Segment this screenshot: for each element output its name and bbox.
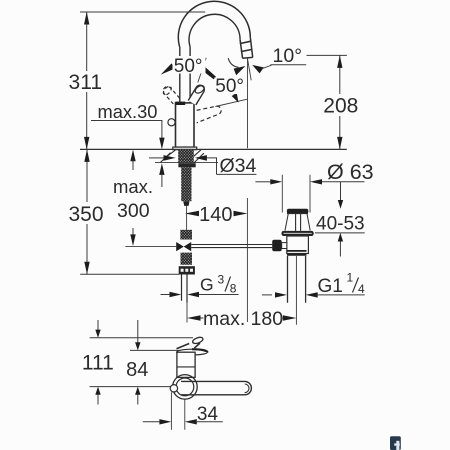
- temp knob circle on body: [168, 119, 175, 126]
- spout end section: [240, 37, 253, 58]
- dim G3/8: [161, 273, 239, 298]
- G3/8 tail pipe: [182, 275, 188, 303]
- threaded rod 1: [181, 167, 191, 201]
- faucet body front: [176, 103, 195, 147]
- plug stem: [287, 214, 308, 231]
- 10deg annotation: [228, 45, 306, 148]
- dim max.180: [187, 308, 296, 330]
- svg-text:4: 4: [358, 282, 365, 296]
- svg-text:300: 300: [117, 200, 150, 222]
- solid lever: [188, 84, 205, 105]
- drain body: [287, 236, 309, 254]
- svg-text:50°: 50°: [174, 56, 203, 77]
- svg-text:G1: G1: [318, 276, 343, 297]
- bowtie junction: [176, 242, 191, 251]
- svg-text:50°: 50°: [215, 76, 244, 97]
- svg-text:max.: max.: [113, 176, 153, 197]
- svg-text:350: 350: [68, 203, 103, 226]
- dim max.300: [113, 150, 153, 246]
- svg-text:140: 140: [199, 204, 232, 226]
- deck hatch right: [194, 150, 204, 163]
- svg-text:84: 84: [126, 359, 148, 381]
- rod tip: [183, 201, 189, 206]
- drain axis line: [295, 256, 297, 325]
- 50deg no.2: [214, 76, 247, 103]
- dim 350: [68, 149, 103, 274]
- svg-text:40-53: 40-53: [316, 214, 365, 235]
- svg-text:1: 1: [347, 271, 354, 285]
- svg-text:34: 34: [197, 404, 219, 425]
- svg-text:311: 311: [69, 71, 102, 94]
- dashed lever axis extension: [215, 99, 247, 106]
- dim 111: [82, 320, 114, 405]
- hose end line (max300 ref): [125, 245, 176, 247]
- dim 84: [126, 320, 148, 405]
- svg-text:max.30: max.30: [98, 101, 158, 122]
- dim Ø63: [255, 160, 373, 212]
- deck hatch left: [161, 150, 176, 162]
- shank collar: [178, 163, 195, 167]
- svg-text:max.: max.: [203, 308, 245, 330]
- spout arc inner: [189, 14, 240, 46]
- svg-text:111: 111: [82, 351, 114, 374]
- dim Ø34: [149, 155, 257, 177]
- dim 140: [185, 198, 247, 322]
- deck line: [80, 148, 347, 150]
- plug skirt lines: [285, 214, 310, 231]
- facebook logo fragment: [390, 436, 401, 450]
- dashed lever down-right: [197, 106, 222, 123]
- side view lever bar: [181, 381, 251, 394]
- side view cartridge circles: [173, 375, 198, 400]
- axis line below rod: [186, 206, 188, 230]
- pop-up rod: [191, 245, 272, 248]
- spout arc outer: [178, 1, 250, 46]
- 50deg no.1: [161, 56, 216, 83]
- ext line lever axis: [90, 386, 172, 388]
- threaded rod 3: [181, 253, 193, 265]
- side view faucet: dashed raised lever: [177, 336, 204, 349]
- dim 208: [307, 55, 359, 149]
- top ref line: [80, 11, 205, 13]
- threaded rod 2: [180, 230, 192, 240]
- side view top disc: [177, 349, 208, 355]
- mounting nut: [179, 266, 195, 274]
- svg-text:Ø34: Ø34: [220, 155, 257, 177]
- aerator bands: [240, 41, 252, 51]
- dim 40-53: [315, 182, 365, 257]
- svg-text:3: 3: [218, 273, 225, 287]
- base flange: [173, 147, 197, 150]
- body top dark connector: [175, 102, 185, 105]
- dim max.30: [91, 101, 165, 187]
- shank at deck: [178, 150, 194, 164]
- svg-text:180: 180: [251, 308, 284, 330]
- drain flange: [282, 231, 314, 236]
- side view body: [177, 352, 195, 377]
- side view small circle: [170, 385, 177, 392]
- drain body bands: [287, 251, 307, 255]
- deck bottom line: [155, 162, 218, 164]
- svg-text:10°: 10°: [273, 45, 303, 67]
- dashed lever up-left: [162, 85, 180, 104]
- dim G1 1/4: [262, 271, 365, 298]
- dim 311: [69, 12, 102, 149]
- svg-text:G: G: [200, 275, 214, 295]
- svg-text:208: 208: [323, 94, 358, 117]
- svg-text:Ø 63: Ø 63: [327, 160, 374, 184]
- dim 34: [143, 392, 223, 430]
- spout tube left: [180, 47, 190, 104]
- bottom ref line (350): [80, 273, 179, 275]
- ext line body top: [130, 349, 179, 351]
- ext line lever top: [90, 337, 193, 339]
- drain knob: [272, 240, 282, 252]
- svg-text:8: 8: [230, 282, 237, 296]
- faucet axis extension to max180: [186, 303, 188, 323]
- drain plug cap: [287, 209, 308, 214]
- drain tailpipe: [288, 256, 306, 303]
